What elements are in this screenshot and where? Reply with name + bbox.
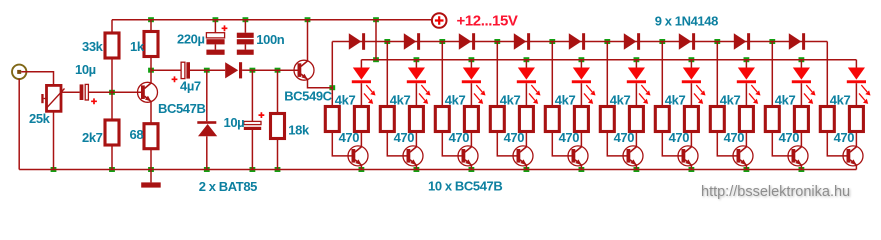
stage 9: wire emitter: [800, 165, 802, 169]
wire 1k top: [150, 20, 152, 32]
svg-text:33k: 33k: [82, 39, 104, 54]
svg-text:2k7: 2k7: [82, 130, 103, 145]
stage 9: transistor BC547B: [800, 132, 802, 147]
stage 4: transistor BC547B: [525, 132, 527, 147]
stage 10: wire emitter: [855, 165, 857, 169]
stage 5: transistor BC547B: [580, 132, 582, 147]
capacitor C2 220µ: [214, 20, 216, 33]
diode D10 1N4148: [734, 33, 747, 50]
svg-text:1k: 1k: [130, 39, 145, 54]
wire 68 to ground: [150, 149, 152, 170]
svg-text:BC549C: BC549C: [284, 88, 332, 103]
stage 10: resistor 470: [849, 107, 863, 132]
stage 8: wire base: [717, 132, 740, 156]
junction: ground rail / emitter 7: [689, 167, 695, 172]
stage 8: resistor 470: [739, 107, 753, 132]
junction: LED rail / LED 9: [799, 57, 805, 62]
junction: node A / 18k: [275, 68, 281, 73]
svg-text:470: 470: [779, 130, 800, 145]
stage 8: LED: [745, 60, 747, 68]
junction: diode chain tap 6: [659, 39, 665, 44]
stage 4: resistor 470: [519, 107, 533, 132]
svg-text:4k7: 4k7: [775, 93, 796, 108]
junction: LED rail / LED 8: [744, 57, 750, 62]
junction: diode chain tap 1: [384, 39, 390, 44]
svg-text:2 x BAT85: 2 x BAT85: [199, 179, 257, 194]
stage 6: wire base: [607, 132, 630, 156]
svg-text:4k7: 4k7: [335, 93, 356, 108]
wire diode tap 3: [496, 42, 498, 107]
wire node to 18k/base: [252, 69, 277, 71]
stage 1: resistor 470: [354, 107, 368, 132]
diode D3 1N4148: [349, 33, 362, 50]
wire jack to pot: [21, 72, 53, 86]
transistor Q2 BC549C: [294, 60, 314, 80]
stage 8: wire emitter: [745, 165, 747, 169]
ground bar C2: [206, 50, 224, 55]
svg-text:+12...15V: +12...15V: [457, 13, 518, 30]
svg-text:4k7: 4k7: [830, 93, 851, 108]
potentiometer P1 25k: [47, 85, 62, 111]
stage 9: LED: [800, 60, 802, 68]
svg-text:4k7: 4k7: [720, 93, 741, 108]
svg-text:25k: 25k: [29, 111, 51, 126]
svg-text:470: 470: [834, 130, 855, 145]
svg-text:http://bsselektronika.hu: http://bsselektronika.hu: [701, 184, 850, 200]
junction: LED rail / LED 6: [634, 57, 640, 62]
stage 2: resistor 4k7: [380, 107, 394, 132]
diode D2 BAT85 (horizontal): [207, 69, 225, 71]
stage 6: transistor BC547B: [635, 132, 637, 147]
svg-text:4µ7: 4µ7: [180, 79, 201, 94]
junction: diode chain tap 7: [714, 39, 720, 44]
resistor R5 18k: [277, 70, 279, 113]
junction: ground rail / emitter 3: [469, 167, 475, 172]
wire 33k column: [111, 20, 113, 33]
stage 4: LED: [525, 60, 527, 68]
diode D6 1N4148: [514, 33, 527, 50]
stage 2: transistor BC547B: [415, 132, 417, 147]
junction: LED rail / LED 4: [524, 57, 530, 62]
junction: diode chain head: [329, 85, 335, 90]
wire diode tap 7: [716, 42, 718, 107]
stage 7: wire base: [662, 132, 685, 156]
svg-text:470: 470: [669, 130, 690, 145]
junction: node A / D1: [204, 68, 210, 73]
stage 5: wire base: [552, 132, 575, 156]
svg-text:9 x 1N4148: 9 x 1N4148: [655, 13, 718, 28]
input jack J1: [12, 65, 26, 79]
svg-text:220µ: 220µ: [177, 32, 205, 47]
wire 33k to 2k7: [111, 58, 113, 120]
capacitor C1 10µ: [80, 84, 84, 100]
junction: LED rail / LED 7: [689, 57, 695, 62]
junction: ground rail / D1: [204, 167, 210, 172]
diode D9 1N4148: [679, 33, 692, 50]
wire diode tap 6: [661, 42, 663, 107]
svg-text:470: 470: [559, 130, 580, 145]
junction: diode chain tap 5: [604, 39, 610, 44]
resistor R3 68: [144, 124, 158, 149]
resistor R2 2k7: [105, 120, 119, 145]
junction: diode chain tap 8: [769, 39, 775, 44]
ground bar C3: [237, 50, 254, 55]
svg-text:4k7: 4k7: [555, 93, 576, 108]
stage 2: LED: [415, 60, 417, 68]
svg-text:68: 68: [130, 127, 144, 142]
junction: top rail / 1k: [148, 17, 154, 22]
svg-text:10µ: 10µ: [224, 115, 245, 130]
wire 18k to ground: [277, 139, 279, 170]
stage 5: resistor 470: [574, 107, 588, 132]
wire C1 to node: [88, 91, 112, 93]
stage 7: transistor BC547B: [690, 132, 692, 147]
svg-text:4k7: 4k7: [500, 93, 521, 108]
wire C4 to node A: [190, 69, 207, 71]
stage 3: resistor 470: [464, 107, 478, 132]
stage 5: resistor 4k7: [545, 107, 559, 132]
stage 3: LED: [470, 60, 472, 68]
svg-text:4k7: 4k7: [445, 93, 466, 108]
stage 4: wire emitter: [525, 165, 527, 169]
stage 4: resistor 4k7: [490, 107, 504, 132]
stage 1: wire base: [332, 132, 355, 156]
stage 1: transistor BC547B: [360, 132, 362, 147]
svg-text:18k: 18k: [288, 123, 310, 138]
diode D1 BAT85 (vertical): [206, 70, 208, 121]
svg-text:470: 470: [504, 130, 525, 145]
capacitor C3 100n: [244, 20, 246, 33]
capacitor C4 4µ7: [151, 69, 181, 71]
stage 6: resistor 470: [629, 107, 643, 132]
wire +12V drop to LED rail: [375, 20, 377, 60]
stage 10: LED: [855, 60, 857, 68]
stage 10: transistor BC547B: [855, 132, 857, 147]
junction: LED rail / LED 3: [469, 57, 475, 62]
wire diode tap 2: [441, 42, 443, 107]
junction: ground rail / emitter 5: [579, 167, 585, 172]
wire diode tap 8: [771, 42, 773, 107]
junction: Q1 base node: [109, 90, 115, 95]
junction: LED rail / LED 5: [579, 57, 585, 62]
junction: diode chain tap 2: [439, 39, 445, 44]
wire diode rail right drop: [826, 42, 828, 107]
junction: ground rail / emitter 9: [799, 167, 805, 172]
stage 1: resistor 4k7: [325, 107, 339, 132]
stage 4: wire base: [497, 132, 520, 156]
stage 6: LED: [635, 60, 637, 68]
stage 8: transistor BC547B: [745, 132, 747, 147]
stage 9: wire base: [772, 132, 795, 156]
diode chain rail: [332, 41, 827, 43]
junction: ground rail / 2k7: [109, 167, 115, 172]
junction: ground rail / pot: [51, 167, 57, 172]
diode D8 1N4148: [624, 33, 637, 50]
junction: ground rail / emitter 8: [744, 167, 750, 172]
stage 3: transistor BC547B: [470, 132, 472, 147]
junction: ground rail / emitter 4: [524, 167, 530, 172]
junction: ground rail / C5: [250, 167, 256, 172]
wire pot to ground rail: [53, 111, 55, 169]
junction: LED rail / LED 2: [414, 57, 420, 62]
capacitor C5 10µ (second): [251, 70, 253, 121]
power symbol +12V: [432, 13, 447, 28]
stage 7: resistor 470: [684, 107, 698, 132]
resistor R1 33k: [105, 33, 119, 58]
junction: diode chain tap 4: [549, 39, 555, 44]
junction: diode chain tap 3: [494, 39, 500, 44]
stage 2: wire emitter: [415, 165, 417, 169]
junction: top rail / 220u: [213, 17, 219, 22]
svg-text:4k7: 4k7: [390, 93, 411, 108]
wire Q1 collector: [150, 70, 152, 83]
stage 3: wire emitter: [470, 165, 472, 169]
junction: top rail / Q2 collector: [305, 17, 311, 22]
wire diode tap 1: [386, 42, 388, 107]
stage 7: resistor 4k7: [655, 107, 669, 132]
junction: ground rail / emitter 6: [634, 167, 640, 172]
stage 8: resistor 4k7: [710, 107, 724, 132]
junction: node A / C5: [250, 68, 256, 73]
stage 3: resistor 4k7: [435, 107, 449, 132]
stage 10: wire base: [827, 132, 850, 156]
LED supply rail: [361, 59, 856, 61]
svg-text:470: 470: [449, 130, 470, 145]
diode D5 1N4148: [459, 33, 472, 50]
wire pot wiper out: [61, 91, 80, 93]
transistor Q1 BC547B: [138, 82, 158, 102]
wire 1k bottom: [150, 57, 152, 71]
svg-text:470: 470: [394, 130, 415, 145]
junction: LED rail / supply drop: [373, 57, 379, 62]
diode D7 1N4148: [569, 33, 582, 50]
svg-text:10µ: 10µ: [75, 62, 96, 77]
wire diode tap 5: [606, 42, 608, 107]
junction: ground rail / emitter 2: [414, 167, 420, 172]
top supply rail: [112, 19, 432, 21]
junction: ground rail / 18k: [275, 167, 281, 172]
ground symbol: [150, 170, 152, 183]
wire Q1 emitter to 68: [150, 102, 152, 124]
wire Q2 emitter to diode chain head: [308, 80, 333, 88]
stage 2: resistor 470: [409, 107, 423, 132]
svg-text:BC547B: BC547B: [158, 101, 205, 116]
svg-text:470: 470: [339, 130, 360, 145]
diode D11 1N4148: [789, 33, 802, 50]
junction: node A / Q1 collector: [148, 68, 154, 73]
stage 6: resistor 4k7: [600, 107, 614, 132]
resistor R4 1k: [144, 32, 158, 57]
stage 9: resistor 4k7: [765, 107, 779, 132]
svg-text:470: 470: [724, 130, 745, 145]
ground rail: [19, 169, 856, 171]
stage 6: wire emitter: [635, 165, 637, 169]
svg-text:10 x BC547B: 10 x BC547B: [428, 179, 502, 194]
wire 2k7 to ground: [111, 145, 113, 170]
stage 5: wire emitter: [580, 165, 582, 169]
stage 1: wire emitter: [360, 165, 362, 169]
junction: ground rail / 68/ground: [148, 167, 154, 172]
junction: top rail / 100n: [243, 17, 249, 22]
svg-text:4k7: 4k7: [610, 93, 631, 108]
stage 1: LED: [360, 60, 362, 68]
svg-text:100n: 100n: [256, 32, 284, 47]
stage 7: LED: [690, 60, 692, 68]
wire diode rail left drop: [331, 42, 333, 107]
wire base Q1: [112, 91, 145, 93]
junction: ground rail / emitter 1: [359, 167, 365, 172]
diode D4 1N4148: [404, 33, 417, 50]
wire diode tap 4: [551, 42, 553, 107]
wire jack ground: [18, 79, 20, 170]
stage 3: wire base: [442, 132, 465, 156]
stage 7: wire emitter: [690, 165, 692, 169]
stage 5: LED: [580, 60, 582, 68]
stage 9: resistor 470: [794, 107, 808, 132]
junction: top rail / supply drop: [373, 17, 379, 22]
svg-text:4k7: 4k7: [665, 93, 686, 108]
stage 10: resistor 4k7: [820, 107, 834, 132]
wire Q2 collector to rail: [307, 20, 309, 61]
svg-text:470: 470: [614, 130, 635, 145]
stage 2: wire base: [387, 132, 410, 156]
